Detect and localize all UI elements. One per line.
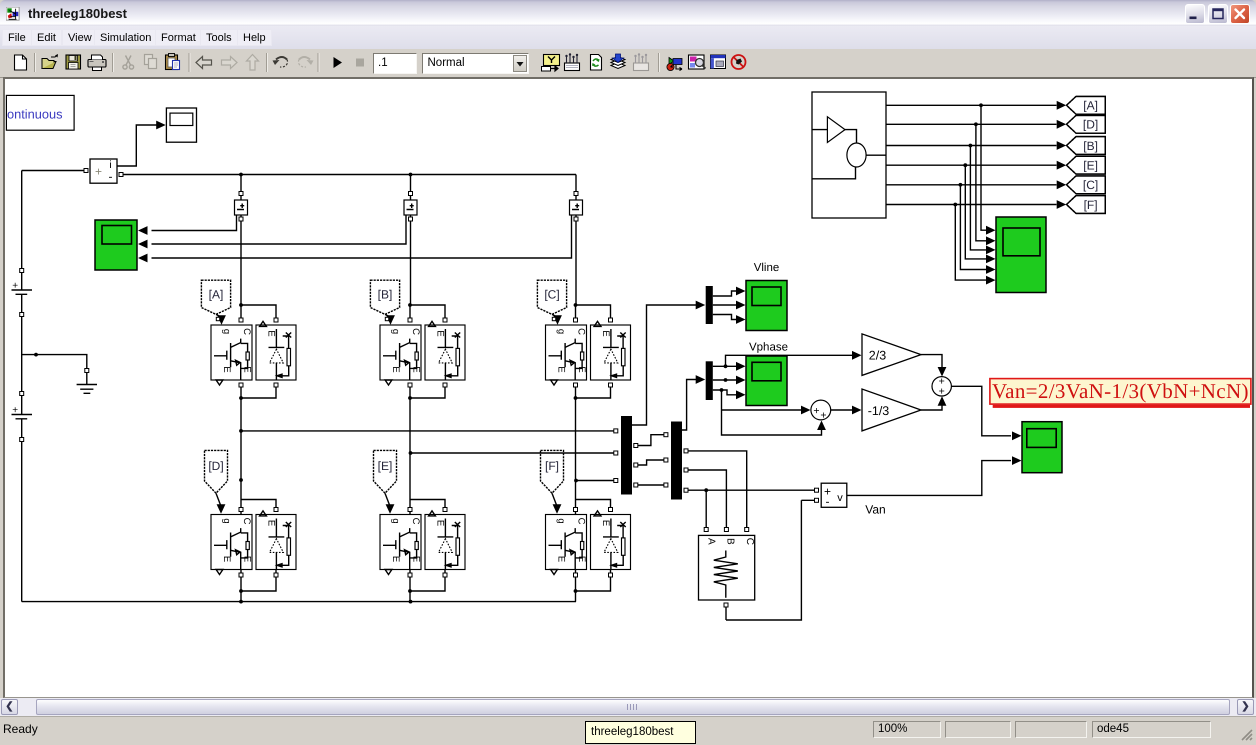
svg-text:2/3: 2/3 bbox=[869, 349, 886, 363]
svg-text:[F]: [F] bbox=[545, 459, 559, 473]
svg-text:[C]: [C] bbox=[1083, 178, 1098, 192]
svg-text:[A]: [A] bbox=[1083, 99, 1098, 113]
svg-text:[A]: [A] bbox=[209, 288, 224, 302]
svg-text:-1/3: -1/3 bbox=[868, 404, 890, 418]
svg-text:[E]: [E] bbox=[378, 459, 393, 473]
svg-text:[F]: [F] bbox=[1084, 198, 1098, 212]
svg-text:[C]: [C] bbox=[544, 288, 559, 302]
svg-text:[D]: [D] bbox=[1083, 118, 1098, 132]
svg-text:-: - bbox=[109, 170, 113, 184]
svg-text:C: C bbox=[744, 538, 755, 545]
svg-text:[D]: [D] bbox=[208, 459, 223, 473]
svg-text:+: + bbox=[939, 386, 945, 398]
svg-text:[B]: [B] bbox=[378, 288, 393, 302]
svg-text:+: + bbox=[813, 405, 819, 417]
svg-text:Van: Van bbox=[865, 503, 885, 517]
svg-text:+: + bbox=[12, 281, 18, 292]
svg-text:Vline: Vline bbox=[754, 262, 780, 274]
svg-text:v: v bbox=[837, 492, 843, 504]
svg-text:B: B bbox=[725, 538, 736, 545]
svg-text:A: A bbox=[706, 538, 717, 545]
svg-text:Vphase: Vphase bbox=[749, 342, 788, 354]
svg-text:ontinuous: ontinuous bbox=[7, 107, 63, 122]
svg-text:[B]: [B] bbox=[1083, 139, 1098, 153]
svg-text:[E]: [E] bbox=[1083, 159, 1098, 173]
svg-text:Van=2/3VaN-1/3(VbN+NcN): Van=2/3VaN-1/3(VbN+NcN) bbox=[992, 379, 1249, 403]
svg-text:+: + bbox=[95, 165, 102, 179]
svg-text:+: + bbox=[12, 405, 18, 416]
svg-text:-: - bbox=[826, 495, 830, 509]
svg-text:+: + bbox=[820, 410, 826, 422]
